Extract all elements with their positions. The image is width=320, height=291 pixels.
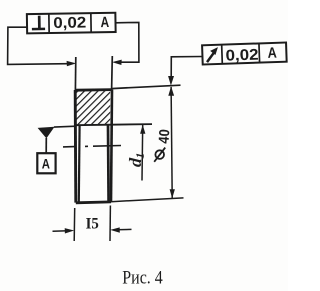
- arrowhead pointing up (dia40 top): [168, 86, 174, 96]
- extension line bottom (for diameter 40): [111, 198, 184, 202]
- diameter 40 label digits (rotated): [156, 129, 173, 145]
- bore line right (bold): [107, 125, 110, 202]
- svg-text:A: A: [267, 45, 277, 62]
- part outline: bottom edge: [76, 200, 111, 204]
- dimension line d1 (arrow up to bore extension): [141, 125, 144, 181]
- svg-text:d1: d1: [125, 152, 147, 168]
- extension line above left edge of part: [74, 57, 76, 90]
- hatch bottom line continuing as d1 extension line: [76, 124, 152, 125]
- centerline (dash-dot axis): [63, 146, 121, 147]
- svg-text:0,02: 0,02: [225, 47, 259, 65]
- part outline: top edge: [75, 88, 112, 91]
- leader from FCF1 left side down to left surface: [8, 27, 68, 64]
- svg-text:A: A: [100, 14, 109, 31]
- svg-text:Рис. 4: Рис. 4: [122, 266, 163, 288]
- leader from FCF1 right side down to right surface: [116, 22, 139, 62]
- extension line below right edge (for 15): [109, 206, 111, 242]
- arrowhead pointing right (15 left): [65, 228, 75, 233]
- dimension line 15: right tail: [117, 228, 132, 230]
- leader from FCF2 left side to diameter extension line: [171, 57, 202, 79]
- perpendicularity symbol (FCF1 cell 1): [32, 16, 45, 30]
- svg-text:A: A: [42, 155, 50, 171]
- extension line top (for diameter 40): [112, 85, 181, 88]
- arrowhead pointing left at right extension line: [112, 60, 122, 65]
- dimension line 15: left tail: [53, 230, 69, 233]
- arrowhead pointing down at top extension line: [168, 76, 174, 86]
- extension line below left edge (for 15): [73, 208, 76, 241]
- arrowhead pointing up (d1): [140, 125, 145, 134]
- feature control frame FCF1 (perpendicularity tolerance): [27, 13, 116, 34]
- extension line above right edge of part: [111, 56, 114, 90]
- hatched cross-section of bushing flange: [76, 91, 110, 125]
- part outline: right edge: [111, 90, 112, 202]
- feature control frame FCF2 (radial runout tolerance): [202, 43, 287, 66]
- arrowhead pointing right at left extension line: [67, 61, 77, 66]
- caption Fig. 4: [122, 266, 163, 288]
- runout symbol: 45-degree arrow (FCF2 cell 1): [207, 51, 216, 62]
- svg-text:I5: I5: [86, 215, 99, 233]
- svg-text:0,02: 0,02: [53, 14, 86, 32]
- diameter symbol of dia40 label: [154, 148, 165, 162]
- datum stem: [45, 138, 47, 153]
- datum triangle (filled): [38, 127, 55, 139]
- bore line left: [78, 125, 81, 202]
- arrowhead pointing left (15 right): [110, 227, 120, 232]
- datum leader line to left surface: [54, 125, 76, 128]
- dimension line diameter 40: [171, 87, 172, 198]
- part outline: left edge: [74, 90, 78, 203]
- datum box: [37, 153, 55, 173]
- label d1 (rotated italic): [125, 152, 147, 168]
- arrowhead pointing down (dia40 bottom): [170, 189, 175, 198]
- svg-text:40: 40: [156, 129, 173, 145]
